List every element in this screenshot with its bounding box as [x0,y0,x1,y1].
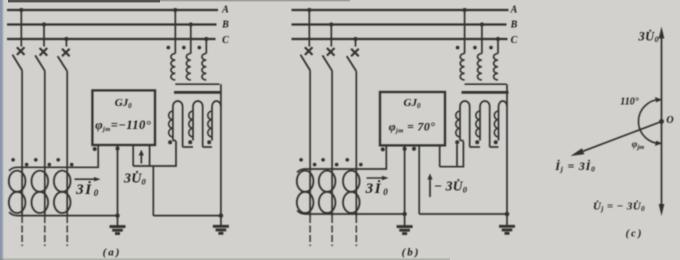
svg-text:O: O [666,115,673,126]
disconnect blade 2 (b) [323,55,333,70]
VT primary winding 2 (a) [182,22,193,80]
open delta series link 2-3 (b) [490,146,499,148]
VT primary neutral connection (a) [175,83,219,85]
svg-text:A: A [221,4,229,15]
disconnect blade 2 (a) [35,55,45,70]
phasor vector Ij = 3I0 (c) [571,122,662,157]
svg-text:C: C [222,35,229,46]
disconnect blade 1 (a) [13,55,23,71]
open delta series link 1-2 (b) [470,146,480,148]
ground symbol 1 (b) [397,214,413,234]
secondary polarity dot 1 (a) [168,140,172,144]
CT secondary bottom return wire (a) [9,212,117,216]
bus A (b) [292,9,509,11]
VT primary winding 2 (b) [473,22,484,80]
CT polarity dots [299,158,316,166]
svg-text:B: B [510,20,518,31]
svg-text:U̇j = − 3U̇0: U̇j = − 3U̇0 [593,200,645,213]
svg-text:C: C [511,35,518,46]
VT primary winding 1 (b) [456,8,467,80]
relay voltage input window (a) [133,141,176,166]
VT secondary right-leg riser to primary neutral (a) [220,84,222,107]
open delta output lead to relay (a) [173,140,176,142]
VT open-delta secondary winding 1 (a) [169,101,183,147]
svg-text:110°: 110° [620,97,638,108]
secondary polarity dot 3 (a) [207,140,211,144]
svg-text:− 3U̇0: − 3U̇0 [434,179,468,195]
open delta series link 2-3 (a) [203,146,212,148]
feeder line 1 down through CT (a) [21,70,23,246]
VT primary neutral connection (b) [465,83,507,85]
CT polarity dots [321,158,338,166]
svg-text:(b): (b) [402,247,421,259]
breaker X mark 2 (a) [40,48,48,56]
ground symbol 2 (b) [499,212,515,234]
secondary polarity dot 3 (b) [494,140,498,144]
relay return conductor to ground (a) [115,144,119,218]
voltage arrow 3U0 (a) [140,155,142,164]
feeder tap 2 with node dot (b) [329,22,333,46]
CT polarity dots [11,158,28,166]
terminal dot at relay current input (a) [93,147,97,151]
VT open-delta secondary winding 2 (a) [189,101,203,147]
bus C (b) [292,38,508,40]
disconnect blade 1 (b) [301,55,311,71]
VT neutral-lead drop to ground bus (a) [152,166,154,216]
scan edge: left blue strip [0,0,3,260]
VT ground bus wire (b) [419,213,507,215]
feeder tap 2 with node dot (a) [42,22,46,46]
ground symbol 1 (a) [110,216,126,234]
feeder line 3 down through CT (a) [66,71,68,246]
CT winding circles on phase line x=44.8 [32,171,49,213]
CT polarity dots [34,158,51,166]
VT ground bus wire (a) [153,215,221,217]
bus B (b) [292,23,507,25]
disconnect blade 3 (b) [347,56,357,71]
CT winding circles on phase line x=332.1 [319,171,336,213]
breaker X mark 1 (b) [305,47,313,55]
VT open-delta secondary winding 3 (b) [494,101,507,216]
CT winding circles on phase line x=310.1 [297,171,314,213]
VT open-delta secondary winding 2 (b) [476,101,490,147]
feeder tap 1 with node dot (a) [19,8,23,47]
VT core bar (a) [174,91,222,94]
ground symbol 2 (a) [213,213,229,233]
bus A (a) [7,9,218,11]
angle arc 110 deg / phi_jm (c) [639,97,663,146]
bus C (a) [7,38,216,40]
breaker X mark 3 (b) [351,49,359,57]
relay return conductor to ground (b) [402,144,406,216]
CT secondary top wire to relay 3I0 input (b) [297,144,386,172]
feeder line 2 down through CT (b) [331,71,333,246]
VT core bar (b) [462,91,509,94]
feeder tap 3 with node dot (b) [353,37,357,47]
CT polarity dots [56,158,73,166]
scan edge: bottom faint line [0,258,450,260]
CT winding circles on phase line x=356.3 [343,171,360,213]
svg-text:A: A [510,4,518,15]
relay voltage input window (b) [440,141,464,167]
feeder tap 3 with node dot (a) [64,37,68,47]
feeder line 1 down through CT (b) [309,70,311,246]
svg-text:B: B [221,20,229,31]
open delta output lead to relay (b) [460,140,463,142]
VT open-delta secondary winding 1 (b) [456,101,470,147]
feeder line 3 down through CT (b) [355,71,357,246]
secondary polarity dot 1 (b) [455,140,459,144]
bus B (a) [7,23,217,25]
feeder tap 1 with node dot (b) [307,8,311,47]
CT secondary top wire to relay 3I0 input (a) [9,144,98,171]
VT open-delta secondary winding 3 (a) [208,101,221,216]
origin node O (c) [659,119,664,124]
svg-text:(c): (c) [626,229,644,240]
VT primary winding 1 (a) [167,8,178,80]
terminal dot at relay current input (b) [381,147,385,151]
svg-text:(a): (a) [103,247,122,259]
current arrow 3I0 (a) [75,178,96,180]
current arrow 3I0 (b) [367,177,384,179]
VT secondary right-leg riser to primary neutral (b) [506,84,508,107]
svg-text:φjm = 70°: φjm = 70° [389,120,436,135]
VT neutral-lead drop to ground bus (b) [412,144,419,214]
phasor axis 3U0 up / Uj down (c) [659,27,665,217]
CT winding circles on phase line x=67.2 [54,171,71,213]
feeder line 2 down through CT (a) [44,71,46,246]
breaker X mark 2 (b) [327,48,335,56]
scan edge: top dark streak [8,0,160,2]
secondary polarity dot 2 (a) [188,140,192,144]
secondary polarity dot 2 (b) [475,140,479,144]
svg-text:İj = 3İ0: İj = 3İ0 [554,159,595,174]
relay box GJ0 (a) [92,90,155,145]
relay box GJ0 (b) [380,92,445,145]
CT polarity dots [346,158,363,166]
VT primary winding 3 (a) [198,37,209,80]
VT primary winding 3 (b) [489,37,500,80]
disconnect blade 3 (a) [58,56,68,71]
CT secondary bottom return wire (b) [297,211,405,215]
voltage arrow -3U0 (b) [429,179,431,198]
CT winding circles on phase line x=22.1 [9,171,26,213]
breaker X mark 1 (a) [17,47,25,55]
open delta series link 1-2 (a) [183,146,193,148]
breaker X mark 3 (a) [62,49,70,57]
